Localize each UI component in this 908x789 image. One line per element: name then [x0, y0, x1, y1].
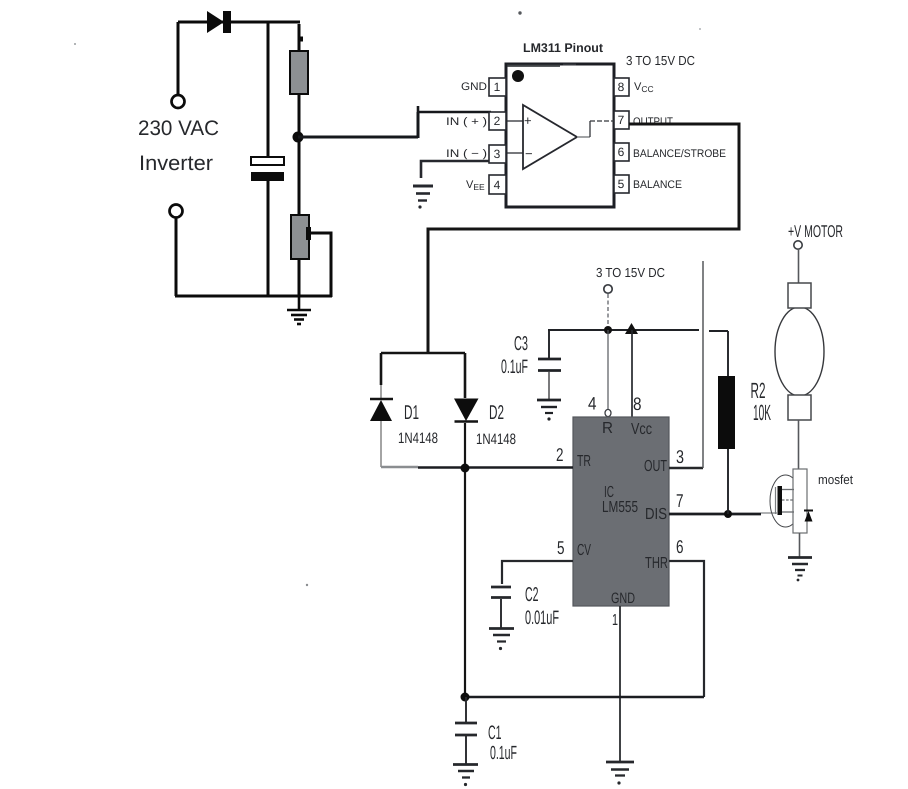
svg-text:LM555: LM555: [602, 499, 638, 516]
svg-text:mosfet: mosfet: [818, 472, 853, 487]
svg-text:D1: D1: [404, 402, 419, 424]
svg-text:D2: D2: [489, 402, 504, 424]
svg-text:−: −: [525, 146, 533, 161]
svg-text:GND: GND: [611, 590, 635, 607]
svg-text:8: 8: [618, 80, 625, 94]
svg-text:1: 1: [612, 612, 618, 629]
svg-text:3: 3: [676, 446, 684, 467]
svg-text:LM311 Pinout: LM311 Pinout: [523, 41, 604, 55]
svg-text:230 VAC: 230 VAC: [138, 117, 219, 140]
svg-text:4: 4: [588, 394, 597, 414]
svg-text:2: 2: [494, 114, 501, 128]
svg-text:IN ( − ): IN ( − ): [446, 148, 487, 160]
svg-text:R: R: [602, 420, 613, 437]
svg-text:5: 5: [618, 177, 625, 191]
svg-text:+: +: [524, 113, 532, 128]
svg-text:DIS: DIS: [645, 506, 667, 523]
svg-text:Vcc: Vcc: [631, 421, 652, 438]
svg-text:CV: CV: [577, 542, 591, 559]
svg-text:IN ( + ): IN ( + ): [446, 116, 487, 128]
svg-text:OUT: OUT: [644, 458, 667, 475]
svg-text:TR: TR: [577, 453, 591, 470]
svg-text:BALANCE/STROBE: BALANCE/STROBE: [633, 148, 726, 160]
svg-text:4: 4: [494, 178, 501, 192]
svg-text:BALANCE: BALANCE: [633, 179, 682, 191]
svg-text:1N4148: 1N4148: [398, 430, 438, 447]
svg-text:3 TO 15V DC: 3 TO 15V DC: [596, 265, 665, 280]
svg-text:2: 2: [556, 444, 564, 465]
svg-text:7: 7: [676, 490, 684, 511]
svg-text:OUTPUT: OUTPUT: [633, 116, 673, 128]
svg-text:6: 6: [676, 536, 684, 557]
svg-text:C2: C2: [525, 584, 539, 606]
svg-text:THR: THR: [645, 555, 668, 572]
svg-text:1N4148: 1N4148: [476, 431, 516, 448]
svg-text:C3: C3: [514, 333, 528, 355]
svg-text:10K: 10K: [753, 400, 771, 425]
svg-text:C1: C1: [488, 722, 502, 744]
svg-text:0.01uF: 0.01uF: [525, 607, 559, 629]
svg-text:1: 1: [494, 80, 501, 94]
svg-text:+V MOTOR: +V MOTOR: [788, 222, 843, 241]
svg-text:6: 6: [618, 145, 625, 159]
svg-text:0.1uF: 0.1uF: [490, 743, 517, 764]
svg-text:8: 8: [633, 394, 642, 414]
svg-text:3 TO 15V DC: 3 TO 15V DC: [626, 53, 695, 68]
svg-text:7: 7: [618, 113, 625, 127]
svg-text:Inverter: Inverter: [139, 152, 213, 175]
svg-text:0.1uF: 0.1uF: [501, 356, 528, 378]
svg-text:GND: GND: [461, 81, 487, 93]
svg-text:5: 5: [557, 537, 565, 558]
svg-text:3: 3: [494, 147, 501, 161]
